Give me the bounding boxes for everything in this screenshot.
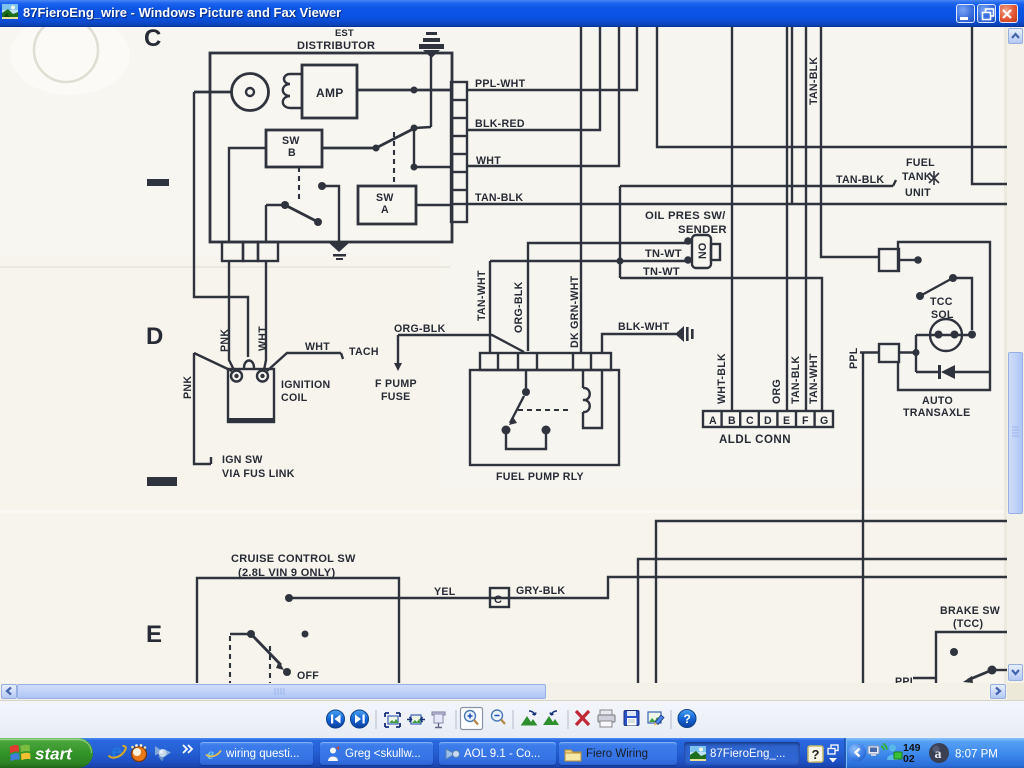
wire vertical to TCC connector <box>821 27 879 257</box>
node WHT <box>411 164 418 171</box>
brake sw box <box>936 632 1007 683</box>
svg-text:UNIT: UNIT <box>905 187 931 199</box>
svg-text:B: B <box>288 147 296 159</box>
taskbar <box>0 738 1024 768</box>
svg-text:TANK: TANK <box>902 171 932 183</box>
svg-text:TAN-BLK: TAN-BLK <box>836 174 884 186</box>
svg-text:CRUISE CONTROL SW: CRUISE CONTROL SW <box>231 553 356 565</box>
wire PNK ignition feed diagonal <box>194 353 232 371</box>
film margin dash 2 <box>147 477 177 486</box>
node TN-WT junction <box>617 258 624 265</box>
wire jumper vertical 620 <box>619 186 621 278</box>
messenger person icon <box>889 745 896 752</box>
wire lower bus 1 <box>656 521 1007 683</box>
wire ORG-BLK to oil switch <box>528 243 686 351</box>
brake switch arm <box>988 666 997 675</box>
wire PNK from distributor to coil <box>229 261 234 370</box>
distributor box U1 <box>210 53 452 242</box>
wire ORG vertical (to ALDL E) <box>786 27 788 411</box>
wire TAN-BLK long <box>467 203 1007 205</box>
node at TCC connector 1 <box>914 256 922 264</box>
wire PPL-WHT <box>467 27 637 90</box>
wire WHT-BLK vertical (to ALDL B) <box>731 27 733 411</box>
connector bumps to AMP <box>283 74 302 108</box>
wire top vertical to right page <box>657 27 1007 147</box>
window stack icon <box>831 745 838 751</box>
module AMP <box>302 65 357 118</box>
collapse chevron <box>848 744 866 762</box>
svg-text:OIL PRES SW/: OIL PRES SW/ <box>645 210 726 222</box>
wire TN-WT lower <box>620 278 822 411</box>
svg-text:TAN-WHT: TAN-WHT <box>808 353 820 404</box>
relay top connector strip <box>480 353 611 370</box>
svg-text:PNK: PNK <box>182 376 194 399</box>
horizontal scrollbar parts <box>1 684 17 699</box>
svg-text:PPL: PPL <box>848 347 860 369</box>
rotate cw <box>543 716 559 725</box>
transaxle box <box>898 242 990 390</box>
svg-text:A: A <box>709 415 717 427</box>
distributor bottom connector <box>222 242 243 261</box>
svg-text:(TCC): (TCC) <box>953 618 983 630</box>
wire TAN-BLK vertical (to ALDL F) <box>805 27 807 411</box>
slideshow <box>432 712 445 715</box>
svg-text:TRANSAXLE: TRANSAXLE <box>903 407 970 419</box>
svg-text:TCC: TCC <box>930 296 953 308</box>
wire lower bus 2 <box>638 559 1007 683</box>
wire BLK-WHT <box>602 334 676 353</box>
start button <box>0 738 93 768</box>
wire SW B right to pivot <box>322 147 376 150</box>
svg-text:?: ? <box>684 712 691 726</box>
ALDL pin boxes A-G <box>703 411 833 427</box>
hole punch mark <box>34 18 98 82</box>
zoom in (active) <box>461 708 483 730</box>
svg-text:OFF: OFF <box>297 670 319 682</box>
svg-text:TAN-BLK: TAN-BLK <box>475 192 523 204</box>
svg-text:SW: SW <box>376 192 394 204</box>
relay internals <box>502 370 603 449</box>
chevron <box>183 745 192 753</box>
svg-text:DK GRN-WHT: DK GRN-WHT <box>569 275 581 348</box>
zoom out <box>492 710 503 721</box>
pickup coil circle <box>232 74 269 111</box>
brake contact <box>950 648 958 656</box>
wire SW A to connector (TAN-BLK) <box>416 204 452 206</box>
svg-text:GRY-BLK: GRY-BLK <box>516 585 565 597</box>
svg-text:e: e <box>112 742 123 763</box>
svg-text:BLK-RED: BLK-RED <box>475 118 525 130</box>
wire solenoid left <box>915 335 917 372</box>
svg-text:EST: EST <box>335 28 354 39</box>
distributor right connector ladder <box>451 82 467 222</box>
node arm tip <box>411 125 418 132</box>
tray panel <box>845 738 1024 768</box>
wire vertical right to fuel tank <box>972 27 1007 184</box>
svg-text:C: C <box>144 27 161 52</box>
svg-text:NO: NO <box>697 243 709 260</box>
svg-text:E: E <box>783 415 790 427</box>
TCC connector 1 <box>879 249 899 271</box>
cruise OFF switch <box>247 630 255 638</box>
svg-text:DISTRIBUTOR: DISTRIBUTOR <box>297 40 375 52</box>
page right edge shade <box>1004 27 1007 683</box>
wire AMP to connector (PPL-WHT feed) <box>357 89 452 92</box>
white blob <box>10 15 130 95</box>
svg-text:TAN-BLK: TAN-BLK <box>808 57 820 105</box>
svg-text:B: B <box>728 415 736 427</box>
svg-text:e: e <box>207 746 214 762</box>
wire pickup to left <box>194 91 231 94</box>
window title bar <box>0 0 1024 27</box>
TCC solenoid circle <box>930 319 962 351</box>
edit <box>648 712 661 723</box>
svg-text:G: G <box>820 415 829 427</box>
svg-text:A: A <box>381 204 389 216</box>
svg-text:WHT: WHT <box>305 341 330 353</box>
wire pickup down to coil center <box>194 92 248 357</box>
wire WHT from distributor to coil <box>264 261 266 370</box>
wire PPL to brake sw <box>913 677 936 679</box>
system tray <box>800 738 1024 768</box>
svg-text:AMP: AMP <box>316 86 344 100</box>
wire short vertical <box>791 27 793 204</box>
quick launch: pointer icon <box>155 746 171 762</box>
wire ORG-BLK <box>398 335 524 352</box>
app icon <box>2 4 18 19</box>
svg-text:D: D <box>764 415 772 427</box>
svg-text:AUTO: AUTO <box>922 395 953 407</box>
svg-text:COIL: COIL <box>281 392 308 404</box>
svg-text:PNK: PNK <box>219 329 231 352</box>
wire TAN-WHT vertical <box>489 261 491 353</box>
actual size <box>411 715 421 724</box>
switch arm <box>376 129 413 148</box>
scrollbar corner <box>1007 683 1024 700</box>
svg-text:ORG: ORG <box>771 379 783 404</box>
viewer toolbar <box>0 700 1024 738</box>
ground G2 (bottom of distributor) <box>328 242 350 260</box>
svg-text:BRAKE SW: BRAKE SW <box>940 605 1000 617</box>
svg-text:D: D <box>146 323 163 350</box>
svg-text:ALDL CONN: ALDL CONN <box>719 434 791 446</box>
oil switch connector NO <box>684 235 720 268</box>
svg-text:02: 02 <box>903 753 915 765</box>
TCC switch <box>916 292 924 300</box>
svg-text:TAN-WHT: TAN-WHT <box>476 270 488 321</box>
wire BLK-RED <box>467 27 600 130</box>
delete X <box>576 711 589 725</box>
cruise switch wire YEL/GRY-BLK <box>289 577 1007 598</box>
svg-text:FUEL: FUEL <box>906 157 935 169</box>
svg-text:E: E <box>146 621 162 648</box>
network monitor icon <box>868 746 879 754</box>
svg-text:F: F <box>802 415 809 427</box>
ground G1 (top of distributor) <box>414 32 444 128</box>
svg-text:TAN-BLK: TAN-BLK <box>790 356 802 404</box>
lower switch in distributor <box>281 201 289 209</box>
wire TN-WT to oil switch <box>490 260 686 262</box>
svg-text:start: start <box>35 745 73 764</box>
windows flag <box>10 744 31 761</box>
cruise inner contact node <box>302 631 309 638</box>
wire PPL (horizontal stub and vertical run to bottom) <box>860 353 879 684</box>
save floppy <box>624 711 639 726</box>
node pivot <box>373 145 380 152</box>
svg-text:8:07 PM: 8:07 PM <box>955 749 998 761</box>
cruise control box <box>197 578 399 683</box>
wire DK GRN-WHT vertical from top <box>580 27 582 353</box>
wire TAN-BLK mid with hook <box>620 180 896 186</box>
quick launch: AOL ball <box>132 747 147 762</box>
svg-text:PPL-WHT: PPL-WHT <box>475 78 526 90</box>
wire WHT node to connector <box>414 166 452 168</box>
best fit <box>388 716 398 724</box>
svg-text:SW: SW <box>282 135 300 147</box>
svg-text:C: C <box>746 415 754 427</box>
svg-text:IGN SW: IGN SW <box>222 454 263 466</box>
quick launch: IE <box>109 742 126 763</box>
svg-text:C: C <box>494 594 502 606</box>
svg-text:a: a <box>935 747 942 762</box>
svg-text:WHT: WHT <box>257 326 269 351</box>
toolbar icons <box>0 700 1024 738</box>
wire WHT <box>467 27 619 166</box>
svg-text:FUEL PUMP RLY: FUEL PUMP RLY <box>496 471 584 483</box>
svg-text:IGNITION: IGNITION <box>281 379 330 391</box>
help tray icon <box>808 746 823 762</box>
wire WHT to TACH diagonal <box>267 353 343 371</box>
node on AMP wire <box>411 87 418 94</box>
svg-text:YEL: YEL <box>434 586 456 598</box>
horizontal scrollbar <box>0 683 1007 700</box>
rotate ccw <box>521 716 537 725</box>
film margin dash 1 <box>147 179 169 186</box>
svg-text:WHT-BLK: WHT-BLK <box>716 353 728 404</box>
svg-text:TN-WT: TN-WT <box>643 266 680 278</box>
wire IGN SW via fus link <box>194 353 211 464</box>
svg-text:F PUMP: F PUMP <box>375 378 417 390</box>
vertical scrollbar <box>1007 27 1024 683</box>
switch SW A box <box>358 186 416 224</box>
connector C <box>490 588 509 607</box>
node cruise switch common <box>285 594 293 602</box>
dashed below SW B <box>298 167 300 202</box>
paper crease <box>0 266 450 268</box>
svg-text:ORG-BLK: ORG-BLK <box>394 323 446 335</box>
AOL globe <box>929 743 949 763</box>
svg-text:ORG-BLK: ORG-BLK <box>513 281 525 333</box>
TCC connector 2 <box>879 344 899 362</box>
switch SW B box <box>266 130 322 167</box>
help <box>678 710 696 728</box>
node to ground <box>318 182 326 190</box>
vertical scrollbar parts <box>1008 28 1023 44</box>
connector arrow symbol <box>675 326 694 342</box>
svg-text:TACH: TACH <box>349 346 379 358</box>
svg-text:BLK-WHT: BLK-WHT <box>618 321 670 333</box>
wire arm tip down to WHT node <box>413 128 415 167</box>
wire fuse drop with arrow <box>397 335 399 363</box>
svg-text:VIA FUS LINK: VIA FUS LINK <box>222 468 295 480</box>
wire conn1 to node <box>899 259 915 261</box>
relay box K1 <box>470 370 619 465</box>
dashed link arm to SW A <box>393 132 395 186</box>
print <box>600 710 612 715</box>
wire SW B left down <box>229 148 266 242</box>
task buttons <box>200 742 313 765</box>
splice mark <box>929 171 939 185</box>
ignition coil T1 <box>228 361 274 424</box>
svg-text:FUSE: FUSE <box>381 391 410 403</box>
diode D1 <box>916 365 990 379</box>
svg-text:TN-WT: TN-WT <box>645 248 682 260</box>
